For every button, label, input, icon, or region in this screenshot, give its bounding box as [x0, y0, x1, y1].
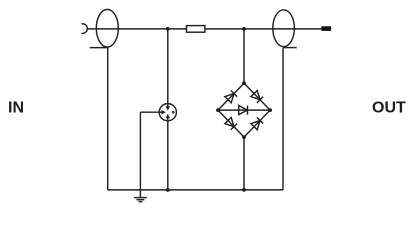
- svg-text:OUT: OUT: [372, 100, 406, 117]
- junction node bridge left: [216, 108, 220, 112]
- junction node top-middle: [166, 27, 170, 31]
- inductor/feed-through L1 (left ellipse): [96, 9, 118, 47]
- junction node bridge top: [242, 81, 246, 85]
- input terminal contact arc: [81, 24, 87, 34]
- diode V1b (top-right edge): [251, 91, 263, 103]
- svg-text:IN: IN: [8, 100, 24, 117]
- ground symbol: [134, 198, 147, 202]
- diode bridge V1 frame: [218, 83, 270, 137]
- wire middle vertical lower (GDT to rail): [167, 121, 169, 190]
- surge arrester / gas discharge tube F1: [159, 104, 176, 121]
- wire GDT left stub: [140, 111, 159, 113]
- junction node bridge right: [268, 108, 272, 112]
- wire top-left segment: [87, 28, 187, 30]
- wire L1 ground tick: [90, 47, 108, 49]
- junction node bridge bottom: [242, 135, 246, 139]
- output terminal block: [321, 26, 331, 31]
- junction node rail-middle: [166, 188, 170, 192]
- diode V1a (left-top edge): [225, 91, 237, 103]
- inductor/feed-through L2 (right ellipse): [273, 10, 295, 47]
- wire L1 drop to ground rail: [107, 48, 109, 190]
- diode V2 (center): [239, 106, 248, 115]
- wire bridge top feed: [243, 29, 245, 83]
- wire GDT left drop to rail: [139, 112, 141, 190]
- resistor R1: [187, 26, 205, 33]
- junction node rail-bridge: [242, 188, 246, 192]
- wire bridge bottom feed: [243, 137, 245, 190]
- wire bridge horizontal: [218, 109, 270, 111]
- wire ground stem: [139, 190, 141, 198]
- junction node top-bridge: [242, 27, 246, 31]
- diode V1d (bottom-right edge): [251, 117, 263, 129]
- wire L2 ground tick: [283, 47, 297, 49]
- wire top-right segment: [205, 28, 321, 30]
- wire middle vertical upper (node to GDT): [167, 29, 169, 104]
- ground rail: [108, 189, 283, 191]
- wire L2 drop to ground rail: [282, 48, 284, 190]
- diode V1c (left-bottom edge): [225, 117, 237, 129]
